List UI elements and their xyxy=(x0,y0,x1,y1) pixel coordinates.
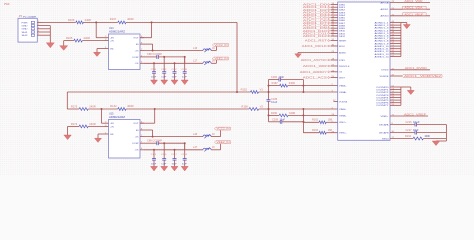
svg-text:L17: L17 xyxy=(193,60,198,63)
connector pin 2 xyxy=(37,25,43,27)
svg-text:L47: L47 xyxy=(193,146,198,149)
ADC pin RESET / net ADC1_RST xyxy=(331,40,338,42)
svg-text:400R: 400R xyxy=(127,105,134,108)
resistor R162 16R xyxy=(303,121,319,123)
-VS rail U15 xyxy=(144,149,203,151)
svg-text:31: 31 xyxy=(332,39,334,41)
svg-text:VOUT: VOUT xyxy=(133,123,139,125)
svg-text:10uF: 10uF xyxy=(172,164,178,166)
U14 pin VOUT xyxy=(140,37,144,39)
resistor R163 16R xyxy=(303,132,319,134)
svg-text:10uF: 10uF xyxy=(151,76,157,78)
U14 GND pin to ground xyxy=(97,48,105,50)
svg-text:VOUT: VOUT xyxy=(133,38,139,40)
ADC pin DECAPA + capacitor C216 xyxy=(390,124,415,126)
svg-text:AGND1_11: AGND1_11 xyxy=(375,48,390,51)
svg-text:AGND1_14: AGND1_14 xyxy=(375,55,390,58)
ADC pin DVDD / net ADC1_DVDD xyxy=(390,69,430,71)
wire net IN1 top horizontal xyxy=(43,21,76,23)
svg-text:R152: R152 xyxy=(241,89,248,92)
ferrite bead L17 xyxy=(203,62,211,64)
svg-text:C115: C115 xyxy=(151,154,157,156)
ground decap xyxy=(432,141,440,146)
svg-text:AGND1_3: AGND1_3 xyxy=(375,27,390,30)
svg-text:L46: L46 xyxy=(193,133,198,136)
svg-text:37: 37 xyxy=(392,75,394,77)
svg-text:C209: C209 xyxy=(272,119,279,121)
svg-text:VCC2_IN: VCC2_IN xyxy=(215,44,228,47)
wire bead to VEE label xyxy=(211,62,216,64)
wire EN to +VS rail xyxy=(144,43,153,45)
svg-text:2: 2 xyxy=(38,24,39,26)
svg-text:5: 5 xyxy=(332,121,333,123)
svg-text:AGND1_2: AGND1_2 xyxy=(375,24,390,27)
svg-text:1uF: 1uF xyxy=(161,164,167,166)
resistor R158 xyxy=(249,108,259,111)
ADC pin DB3 / net ADC1_D3 xyxy=(331,11,338,13)
ADC U16 body xyxy=(338,2,390,140)
svg-text:59: 59 xyxy=(392,104,394,106)
svg-text:10pF: 10pF xyxy=(279,77,285,79)
svg-text:28: 28 xyxy=(332,114,334,116)
+VS rail U15 xyxy=(144,136,203,138)
svg-text:240R: 240R xyxy=(89,106,96,109)
svg-text:1K: 1K xyxy=(212,133,215,136)
ground connector xyxy=(46,43,54,48)
svg-text:AD8021ARZ: AD8021ARZ xyxy=(109,116,126,119)
wire join caps/res xyxy=(445,125,447,142)
svg-text:U15: U15 xyxy=(109,113,114,116)
ground DCIN stack xyxy=(401,86,411,88)
ADC pin DB6 / net ADC1_D6 xyxy=(331,19,338,21)
wire connector pins 2-5 to ground xyxy=(43,25,50,27)
svg-text:+VS: +VS xyxy=(135,137,139,139)
svg-text:ADC1_VDA: ADC1_VDA xyxy=(404,7,422,10)
svg-text:R162: R162 xyxy=(312,118,319,121)
svg-text:C117: C117 xyxy=(171,154,177,156)
resistor R105 240R xyxy=(64,40,74,42)
svg-text:VREF+: VREF+ xyxy=(381,116,390,118)
ground R174 xyxy=(67,126,69,135)
resistor R107 400R feedback xyxy=(118,21,126,24)
svg-text:100K: 100K xyxy=(425,136,431,138)
svg-text:MCLK: MCLK xyxy=(339,46,346,48)
svg-text:DVDD: DVDD xyxy=(382,70,390,72)
svg-text:AGND: AGND xyxy=(339,51,347,54)
svg-text:ADC1_VDD: ADC1_VDD xyxy=(404,0,422,3)
svg-text:C105: C105 xyxy=(151,69,157,71)
node V1 rect right vertical xyxy=(302,80,304,93)
U15 GND pin to ground xyxy=(98,133,105,135)
svg-text:3: 3 xyxy=(332,91,333,93)
ADC pin AVDD4 row net ADC1_VBUF xyxy=(390,15,430,17)
drop to U15 -IN xyxy=(101,108,103,110)
connector pin 1 xyxy=(37,21,43,23)
svg-text:C89 CCOMP: C89 CCOMP xyxy=(147,141,163,143)
svg-text:ADC1_D12: ADC1_D12 xyxy=(303,34,328,38)
svg-text:R174: R174 xyxy=(71,123,78,126)
svg-text:EN: EN xyxy=(136,44,139,46)
capacitor C117 xyxy=(174,150,176,159)
svg-text:ADC1_MCLK: ADC1_MCLK xyxy=(302,44,327,48)
svg-text:1uF: 1uF xyxy=(182,76,188,78)
svg-text:C116: C116 xyxy=(161,154,167,156)
svg-text:DECAPA: DECAPA xyxy=(379,123,389,126)
svg-text:-IN: -IN xyxy=(110,123,114,125)
connector pin 5 xyxy=(37,34,43,36)
svg-text:C88 CCOMP: C88 CCOMP xyxy=(147,54,163,56)
ADC pin DRDY / net ADC1_ACS xyxy=(331,77,338,79)
ADC AGND stack bus xyxy=(390,22,401,24)
svg-text:U14: U14 xyxy=(109,27,114,30)
svg-text:AGND1_5: AGND1_5 xyxy=(375,32,390,35)
svg-text:GND: GND xyxy=(110,134,114,136)
svg-text:ADC1_ACS: ADC1_ACS xyxy=(303,76,328,80)
ADC pin STBY / net ADC1_ASYNC xyxy=(331,59,338,61)
svg-text:AGND1_10: AGND1_10 xyxy=(375,45,390,48)
ADC pin VREF+ / net ADC1_VREF xyxy=(390,115,428,117)
ADC pin AVDD1 row net ADC1_VDA xyxy=(390,8,430,10)
svg-text:DRDY: DRDY xyxy=(339,77,346,79)
ADC pin RSV + resistor R164 100K xyxy=(390,138,413,140)
wire xyxy=(126,21,237,23)
op-amp U14 AD8021ARZ xyxy=(109,34,141,70)
svg-text:240R: 240R xyxy=(89,123,96,126)
svg-text:R187: R187 xyxy=(272,82,279,85)
svg-text:VCC2_IN: VCC2_IN xyxy=(217,128,230,131)
svg-text:AGND1_1: AGND1_1 xyxy=(375,21,390,24)
svg-text:45: 45 xyxy=(332,35,334,37)
svg-text:AGND1_6: AGND1_6 xyxy=(375,35,390,38)
connector pin 4 xyxy=(37,31,43,33)
ADC pin RD/SCLK / net ADC1_WR xyxy=(331,65,338,67)
svg-text:GND: GND xyxy=(110,48,114,50)
svg-text:PJ-102AH: PJ-102AH xyxy=(23,15,37,18)
svg-text:ADC1_ASYNC: ADC1_ASYNC xyxy=(301,58,327,62)
svg-text:29: 29 xyxy=(332,131,334,133)
svg-text:41: 41 xyxy=(392,68,394,70)
ADC DCIN stack bus xyxy=(390,86,401,88)
svg-text:3: 3 xyxy=(38,27,39,29)
wire to +IN xyxy=(82,40,104,42)
svg-text:AVCCA: AVCCA xyxy=(381,1,390,4)
svg-text:VINA+: VINA+ xyxy=(339,85,347,88)
svg-text:5: 5 xyxy=(38,34,39,36)
ADC pin DB11 / net ADC1_D11 xyxy=(331,32,338,34)
svg-text:8: 8 xyxy=(392,123,393,125)
CCOMP wire + series cap C88 xyxy=(144,56,157,58)
capacitor C185 0.1uF differential V1-V2 xyxy=(268,92,270,100)
svg-text:PWR: PWR xyxy=(4,4,10,6)
svg-text:1uF: 1uF xyxy=(161,76,167,78)
svg-text:L16: L16 xyxy=(193,47,198,50)
svg-text:ADC1_RST: ADC1_RST xyxy=(305,39,328,43)
svg-text:ADC1_VREF: ADC1_VREF xyxy=(404,113,427,116)
ADC pin AVCCA row net ADC1_VDD xyxy=(390,1,430,3)
connector J5 xyxy=(18,18,37,42)
svg-text:EN: EN xyxy=(136,130,139,132)
ADC pin VDRIVE / boxed label xyxy=(390,75,402,77)
ADC pin AGND to ground left xyxy=(298,52,338,54)
ADC pin DB7 / net ADC1_D7 xyxy=(331,22,338,24)
svg-text:24: 24 xyxy=(392,8,394,10)
svg-text:RSV4: RSV4 xyxy=(382,138,389,140)
svg-text:10uF: 10uF xyxy=(413,130,419,132)
svg-text:640R: 640R xyxy=(289,82,295,85)
svg-text:GND: GND xyxy=(22,29,29,31)
ADC pin DB5 / net ADC1_D5 xyxy=(331,17,338,19)
resistor R132 400R feedback xyxy=(118,108,126,111)
U15 pin CCOMP xyxy=(140,142,144,144)
svg-text:29: 29 xyxy=(332,51,334,53)
svg-text:C216: C216 xyxy=(406,122,413,124)
U15 pin +VS xyxy=(140,136,144,138)
ADC pin DB12 / net ADC1_D12 xyxy=(331,35,338,37)
U14 pin GND xyxy=(105,48,109,50)
wire drop to U14 -IN xyxy=(95,21,97,23)
svg-text:17: 17 xyxy=(392,137,394,139)
svg-text:RESET: RESET xyxy=(339,40,347,42)
svg-text:CCOMP: CCOMP xyxy=(132,143,139,145)
-VS rail xyxy=(144,62,203,64)
svg-text:30: 30 xyxy=(392,131,394,133)
wire bead to VCC label xyxy=(211,50,216,52)
node VOUT U14 riser xyxy=(151,21,153,23)
U15 pin EN xyxy=(140,129,144,131)
svg-text:C217: C217 xyxy=(406,130,413,132)
svg-text:-VS: -VS xyxy=(135,63,139,65)
svg-text:GND: GND xyxy=(22,26,29,28)
svg-text:AD8021ARZ: AD8021ARZ xyxy=(109,31,126,34)
U14 pin CCOMP xyxy=(140,56,144,58)
svg-text:VINA-: VINA- xyxy=(339,91,347,94)
capacitor C118 xyxy=(184,143,186,158)
CCOMP wire + series cap C89 xyxy=(144,142,157,144)
svg-text:57: 57 xyxy=(392,55,394,57)
capacitor C115 xyxy=(153,150,155,159)
svg-text:R190: R190 xyxy=(271,112,278,115)
svg-text:4: 4 xyxy=(38,31,39,33)
capacitor C209 10uF xyxy=(269,121,281,123)
U15 pin VOUT xyxy=(140,122,144,124)
svg-text:R107: R107 xyxy=(110,18,117,21)
ground R105 xyxy=(63,41,65,46)
svg-text:10uF: 10uF xyxy=(280,119,286,121)
ADC pin DB2 / net ADC1_D2 xyxy=(331,9,338,11)
svg-text:VINC-: VINC- xyxy=(339,133,347,135)
U15 pin GND xyxy=(105,133,109,135)
U14 pin +IN xyxy=(105,40,109,42)
U14 pin EN xyxy=(140,43,144,45)
svg-text:ADC1_ADRDY: ADC1_ADRDY xyxy=(300,70,327,74)
ferrite bead L16 xyxy=(203,49,211,51)
svg-text:ADC1_VDRIVE2: ADC1_VDRIVE2 xyxy=(404,75,442,78)
svg-text:R105: R105 xyxy=(66,37,73,40)
svg-text:VDRIVE: VDRIVE xyxy=(380,76,390,78)
resistor R152 xyxy=(251,91,259,94)
capacitor C184 10pF xyxy=(269,79,280,81)
svg-text:28: 28 xyxy=(332,59,334,61)
ADC pin DECAPB + capacitor C217 xyxy=(390,132,415,134)
svg-text:AGND1_7: AGND1_7 xyxy=(375,37,390,40)
U14 pin -VS xyxy=(140,62,144,64)
ADC pin VOUTA (nc) xyxy=(334,101,338,103)
svg-text:27: 27 xyxy=(332,65,334,67)
svg-text:R163: R163 xyxy=(312,129,319,132)
op-amp U15 AD8021ARZ xyxy=(109,120,141,159)
svg-text:0.1uF: 0.1uF xyxy=(271,102,278,104)
svg-text:0.1uF: 0.1uF xyxy=(413,122,420,124)
svg-text:R175: R175 xyxy=(71,106,78,109)
svg-text:10uF: 10uF xyxy=(151,164,157,166)
U15 pin -VS xyxy=(140,149,144,151)
resistor R106 240R xyxy=(76,21,84,24)
svg-text:AGND1_13: AGND1_13 xyxy=(375,53,390,56)
svg-text:AGND1_8: AGND1_8 xyxy=(375,40,390,43)
U15 pin -IN xyxy=(105,122,109,124)
svg-text:R158: R158 xyxy=(241,106,248,109)
svg-text:AGND1_4: AGND1_4 xyxy=(375,29,390,32)
wire jog down to bottom circuit xyxy=(66,92,68,109)
svg-text:1: 1 xyxy=(38,21,39,23)
svg-text:4: 4 xyxy=(332,108,333,110)
svg-text:ADC1_WR: ADC1_WR xyxy=(303,64,327,68)
svg-text:10uF: 10uF xyxy=(172,76,178,78)
resistor R175 240R xyxy=(79,108,88,111)
svg-text:71: 71 xyxy=(392,115,394,117)
svg-text:VEE2_IN: VEE2_IN xyxy=(217,141,230,144)
svg-text:AGND1_9: AGND1_9 xyxy=(375,42,390,45)
svg-text:C108: C108 xyxy=(182,69,188,71)
global label VEE_IN xyxy=(213,57,229,60)
svg-text:DECAPB: DECAPB xyxy=(379,131,389,134)
svg-text:+IN: +IN xyxy=(110,126,114,128)
wire xyxy=(83,21,117,23)
svg-text:PWR: PWR xyxy=(22,22,29,24)
svg-text:-VS: -VS xyxy=(135,150,139,152)
svg-text:23: 23 xyxy=(392,1,394,3)
svg-text:1uF: 1uF xyxy=(182,164,188,166)
svg-text:+IN: +IN xyxy=(110,41,114,43)
svg-text:STBY: STBY xyxy=(339,60,346,62)
ADC pin DB8 / net ADC1_D8 xyxy=(331,25,338,27)
svg-text:26: 26 xyxy=(332,70,334,72)
svg-text:1K: 1K xyxy=(212,47,215,50)
svg-text:CCOMP: CCOMP xyxy=(132,57,139,59)
svg-text:C118: C118 xyxy=(182,154,188,156)
ferrite bead L46 xyxy=(203,135,211,137)
svg-text:30: 30 xyxy=(332,45,334,47)
ferrite bead L47 xyxy=(203,148,211,150)
wire EN to +VS rail (U15) xyxy=(144,129,153,131)
svg-text:27: 27 xyxy=(333,100,335,102)
svg-text:640R: 640R xyxy=(289,112,295,115)
svg-text:R132: R132 xyxy=(110,105,117,108)
resistor R174 240R xyxy=(68,125,80,127)
U14 pin +VS xyxy=(140,50,144,52)
svg-text:DB12: DB12 xyxy=(339,36,346,38)
wire vertical x=237 xyxy=(236,22,238,92)
resistor R190 640R xyxy=(269,114,280,116)
svg-text:R164: R164 xyxy=(405,136,412,138)
global label VCC_IN (bottom) xyxy=(215,127,231,130)
svg-text:VINB+: VINB+ xyxy=(339,109,347,111)
ADC pin CS / net ADC1_ADRDY xyxy=(331,71,338,73)
ADC pin DB0 / net ADC1_D0 xyxy=(331,4,338,6)
svg-text:VINC+: VINC+ xyxy=(339,122,347,124)
svg-text:-IN: -IN xyxy=(110,38,114,40)
U15 VOUT riser xyxy=(154,108,156,110)
ground AGND stack xyxy=(401,22,407,24)
capacitor C108 xyxy=(184,57,186,72)
svg-text:RD/SCLK: RD/SCLK xyxy=(339,66,350,68)
svg-text:2: 2 xyxy=(332,84,333,86)
ADC pin DB1 / net ADC1_D1 xyxy=(331,6,338,8)
svg-text:C185: C185 xyxy=(271,99,278,101)
U15 pin +IN xyxy=(105,125,109,127)
wire mid V1 line xyxy=(67,91,250,93)
svg-text:C107: C107 xyxy=(171,69,177,71)
svg-text:VINB-: VINB- xyxy=(339,115,347,117)
svg-text:72: 72 xyxy=(392,14,394,16)
svg-text:400R: 400R xyxy=(127,18,134,21)
ADC pin DB4 / net ADC1_D4 xyxy=(331,14,338,16)
capacitor C105 xyxy=(153,63,155,71)
svg-text:+VS: +VS xyxy=(135,50,139,52)
svg-text:AGND1_12: AGND1_12 xyxy=(375,50,390,53)
global label VEE_IN (bottom) xyxy=(215,141,231,144)
svg-text:25: 25 xyxy=(332,76,334,78)
ADC pin DB9 / net ADC1_D9 xyxy=(331,27,338,29)
svg-text:240R: 240R xyxy=(84,37,91,40)
svg-text:1K: 1K xyxy=(212,146,215,149)
svg-text:DCINP7: DCINP7 xyxy=(377,105,390,107)
node V2 rect verticals xyxy=(268,109,270,122)
svg-text:C106: C106 xyxy=(161,69,167,71)
svg-text:R106: R106 xyxy=(68,19,75,22)
ADC pin MCLK / net ADC1_MCLK xyxy=(331,45,338,47)
svg-text:VOUTA: VOUTA xyxy=(339,100,348,103)
wire net bottom horizontal xyxy=(67,108,79,110)
svg-text:AVDD4: AVDD4 xyxy=(381,15,390,18)
node V1 rect left vertical xyxy=(268,80,270,93)
svg-text:C184: C184 xyxy=(271,77,278,79)
global label VCC_IN xyxy=(213,44,229,47)
U14 pin -IN xyxy=(105,37,109,39)
svg-text:ADC1_DVDD: ADC1_DVDD xyxy=(405,67,427,70)
+VS rail xyxy=(144,50,203,52)
svg-text:VEE2_IN: VEE2_IN xyxy=(215,57,228,60)
svg-text:AVDD1: AVDD1 xyxy=(381,8,390,11)
capacitor C107 xyxy=(174,63,176,71)
resistor R187 640R xyxy=(269,85,280,87)
capacitor C106 xyxy=(163,57,165,72)
capacitor C116 xyxy=(163,143,165,158)
svg-text:240R: 240R xyxy=(85,19,92,22)
svg-text:ADC1_VBUF: ADC1_VBUF xyxy=(404,13,424,16)
ADC pin DB10 / net ADC1_D10 xyxy=(331,30,338,32)
connector pin 3 xyxy=(37,28,43,30)
